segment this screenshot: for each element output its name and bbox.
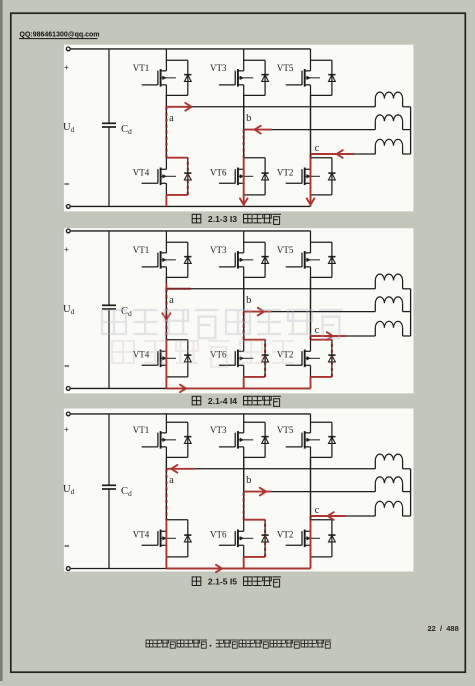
svg-text:VT3: VT3 [210,63,227,73]
diode VD2 (freewheel of VT2) branch wiring [311,520,332,557]
capacitor Cd lower lead [108,309,110,388]
wire: DC- bottom rail [71,387,311,389]
current arrow: out of node c [327,332,333,340]
wire: leg segment below VT4 [165,195,167,207]
wire: DC+ top rail [71,48,311,50]
svg-text:VT3: VT3 [210,245,227,255]
current arrow: leg A down [162,313,170,320]
svg-text:VT6: VT6 [210,530,227,540]
wire: leg segment below VT1 [165,277,167,339]
wire: leg segment below VT3 [243,95,245,157]
svg-text:VT4: VT4 [133,530,150,540]
wire: phase a output [166,106,375,108]
current arrow: out of node a [185,103,191,111]
wire: leg feed above VT2 [310,457,312,519]
diode VD6 symbol [262,173,269,180]
diode VD3 symbol [262,257,269,264]
inductor load phase a [375,92,410,107]
diode VD5 symbol [328,257,335,264]
wire: leg feed above VT6 [243,277,245,339]
capacitor Cd upper lead [108,231,110,305]
diode VD4 (freewheel of VT4) branch wiring [166,158,187,195]
svg-text:c: c [315,505,320,516]
diode VD4 symbol [184,535,191,542]
transistor VT6 [219,350,253,368]
figure 3 white panel [64,409,414,572]
svg-text:c: c [315,325,320,336]
wire: leg feed above VT5 [310,49,312,60]
wire: VT3 drain-side leg inside block [243,242,245,253]
current arrow: leg B down [240,198,248,204]
wire: leg segment below VT2 [310,377,312,389]
watermark row 1 [102,310,343,338]
label - [65,183,70,185]
wire: VT2 drain-side leg inside block [310,339,312,351]
diode VD6 (freewheel of VT6) branch wiring [244,340,265,377]
transistor VT6 [219,168,253,186]
wire: VT6 source-side leg inside block [243,183,245,195]
wire: phase b output [244,491,376,493]
wire: VT5 drain-side leg inside block [310,242,312,253]
caption figure 2.1-5 [192,576,281,587]
svg-text:b: b [246,295,251,306]
capacitor Cd upper lead [108,49,110,123]
transistor VT4 [142,350,176,368]
inductor load phase a [375,454,410,469]
wire: leg segment below VT1 [165,457,167,519]
wire: leg feed above VT1 [165,231,167,242]
capacitor Cd upper lead [108,414,110,485]
wire: leg segment below VT1 [165,95,167,157]
wire: leg feed above VT5 [310,231,312,242]
diode VD2 symbol [328,355,335,362]
svg-text:a: a [169,113,174,124]
svg-text:QQ:986461300@qq.com: QQ:986461300@qq.com [20,31,100,38]
wire: VT5 drain-side leg inside block [310,422,312,433]
wire: phase c output [311,335,376,337]
diode VD6 symbol [262,355,269,362]
wire: VT6 source-side leg inside block [243,365,245,377]
wire: DC+ top rail [71,413,311,415]
wire: VT1 drain-side leg inside block [165,422,167,433]
diode VD4 symbol [184,355,191,362]
capacitor Cd [102,123,116,127]
wire: VT6 drain-side leg inside block [243,339,245,351]
current arrow: out of node b [258,308,264,316]
wire: leg feed above VT1 [165,414,167,422]
node: DC+ terminal [66,229,70,233]
wire: VT3 source-side leg inside block [243,267,245,278]
diode VD1 (freewheel of VT1) branch wiring [166,60,187,95]
diode VD3 (freewheel of VT3) branch wiring [244,242,265,277]
wire: leg feed above VT2 [310,277,312,339]
current arrow: bottom rail right [216,565,222,572]
wire: VT3 source-side leg inside block [243,447,245,458]
current path I5: up through diode VD6 to node b [244,492,272,569]
wire: leg feed above VT4 [165,277,167,339]
svg-text:VT1: VT1 [133,63,150,73]
transistor VT5 [286,69,320,87]
current path I5: bottom rail to leg B [166,568,310,570]
node: DC- terminal [66,205,70,209]
wire: phase a output [166,468,375,470]
current path I5: phase a into leg A [166,469,194,569]
diode VD1 (freewheel of VT1) branch wiring [166,242,187,277]
diode VD6 (freewheel of VT6) branch wiring [244,520,265,557]
scan left edge shading [0,0,3,681]
wire: leg segment below VT5 [310,277,312,339]
svg-text:2.1-5 I5: 2.1-5 I5 [208,576,237,586]
wire: VT4 drain-side leg inside block [165,157,167,169]
diode VD2 symbol [328,173,335,180]
diode VD5 (freewheel of VT5) branch wiring [311,422,332,457]
diode VD3 (freewheel of VT3) branch wiring [244,60,265,95]
wire: leg segment below VT3 [243,457,245,519]
wire: VT4 source-side leg inside block [165,365,167,377]
wire: leg feed above VT4 [165,95,167,157]
node: DC+ terminal [66,47,70,51]
header underline [19,38,98,40]
node: DC- terminal [66,387,70,391]
wire: leg feed above VT1 [165,49,167,60]
svg-text:VT2: VT2 [277,530,294,540]
wire: VT6 drain-side leg inside block [243,157,245,169]
diode VD1 symbol [184,75,191,82]
current path I3: phase b return into leg B [244,130,272,207]
wire: load star bus [410,469,412,516]
figure 1 white panel [64,45,414,212]
svg-text:2.1-3 I3: 2.1-3 I3 [208,214,237,224]
current path I5: phase c into leg C through VT2 [311,516,346,569]
svg-text:b: b [246,475,251,486]
svg-text:c: c [315,143,320,154]
wire: leg feed above VT3 [243,49,245,60]
transistor VT3 [219,69,253,87]
wire: VT1 source-side leg inside block [165,85,167,96]
inductor load phase b [375,477,410,492]
node: DC+ terminal [66,412,70,416]
inductor load phase b [375,297,410,312]
svg-text:VT4: VT4 [133,168,150,178]
wire: phase c output [311,153,376,155]
wire: VT1 source-side leg inside block [165,447,167,458]
capacitor Cd [102,305,116,309]
wire: leg feed above VT6 [243,457,245,519]
current path I4: bottom rail to legs B,C [166,387,310,389]
svg-text:VT6: VT6 [210,168,227,178]
current arrow: leg C down [307,198,315,204]
svg-text:2.1-4 I4: 2.1-4 I4 [208,396,237,406]
svg-text:a: a [169,295,174,306]
transistor VT1 [142,69,176,87]
transistor VT1 [142,431,176,449]
svg-text:+: + [64,425,69,434]
transistor VT3 [219,251,253,269]
wire: VT2 drain-side leg inside block [310,157,312,169]
svg-text:+: + [64,63,69,72]
label - [65,545,70,547]
diode VD4 (freewheel of VT4) branch wiring [166,520,187,557]
svg-text:VT3: VT3 [210,425,227,435]
wire: leg feed above VT6 [243,95,245,157]
capacitor Cd lower lead [108,127,110,206]
wire: phase a output [166,288,375,290]
transistor VT4 [142,168,176,186]
current arrow: into node a [171,465,177,473]
diode VD3 symbol [262,75,269,82]
wire: leg feed above VT2 [310,95,312,157]
svg-text:VT1: VT1 [133,425,150,435]
current arrow: into node b [255,126,261,134]
wire: VT2 source-side leg inside block [310,365,312,377]
svg-text:VT1: VT1 [133,245,150,255]
inductor load phase c [375,501,410,516]
wire: phase b output [244,311,376,313]
wire: DC- bottom rail [71,568,311,570]
diode VD4 (freewheel of VT4) branch wiring [166,340,187,377]
inductor load phase c [375,139,410,154]
svg-text:+: + [64,245,69,254]
transistor VT1 [142,251,176,269]
wire: leg feed above VT3 [243,231,245,242]
svg-text:VT5: VT5 [277,425,294,435]
wire: leg feed above VT4 [165,457,167,519]
wire: VT5 drain-side leg inside block [310,60,312,71]
wire: leg segment below VT4 [165,557,167,569]
wire: load star bus [410,289,412,336]
diode VD1 symbol [184,257,191,264]
diode VD6 (freewheel of VT6) branch wiring [244,158,265,195]
diode VD2 (freewheel of VT2) branch wiring [311,158,332,195]
svg-text:a: a [169,475,174,486]
wire: VT2 source-side leg inside block [310,545,312,557]
svg-text:VT5: VT5 [277,245,294,255]
wire: VT2 drain-side leg inside block [310,519,312,531]
wire: VT4 source-side leg inside block [165,545,167,557]
wire: leg segment below VT2 [310,557,312,569]
wire: VT3 drain-side leg inside block [243,60,245,71]
svg-text:b: b [246,113,251,124]
wire: leg segment below VT5 [310,457,312,519]
caption figure 2.1-3 [192,214,281,225]
current path I3: leg A up through diode VD4 [166,107,189,207]
current path I4: node a down leg A through VT4 [166,283,191,389]
diode VD1 (freewheel of VT1) branch wiring [166,422,187,457]
wire: leg segment below VT6 [243,557,245,569]
wire: load star bus [410,107,412,154]
wire: DC+ top rail [71,230,311,232]
wire: VT4 drain-side leg inside block [165,519,167,531]
capacitor Cd [102,485,116,489]
wire: VT1 drain-side leg inside block [165,242,167,253]
wire: leg segment below VT6 [243,195,245,207]
wire: VT5 source-side leg inside block [310,267,312,278]
watermark row 2 [112,341,294,367]
diode VD3 symbol [262,437,269,444]
diode VD5 symbol [328,437,335,444]
current path I4: up through diode VD6 to node b [244,312,272,389]
wire: leg feed above VT5 [310,414,312,422]
wire: VT3 source-side leg inside block [243,85,245,96]
current arrow: out of node b [260,488,266,496]
svg-text:VT2: VT2 [277,168,294,178]
diode VD5 (freewheel of VT5) branch wiring [311,242,332,277]
wire: leg segment below VT5 [310,95,312,157]
transistor VT5 [286,431,320,449]
diode VD6 symbol [262,535,269,542]
node: DC- terminal [66,567,70,571]
transistor VT2 [286,530,320,548]
inductor load phase a [375,274,410,289]
figure 2 white panel [64,228,414,393]
current arrow: bottom rail right [180,385,186,392]
current path I4: up through diode VD2 to node c [311,336,346,388]
diode VD5 symbol [328,75,335,82]
transistor VT5 [286,251,320,269]
wire: VT1 source-side leg inside block [165,267,167,278]
wire: leg segment below VT6 [243,377,245,389]
svg-text:VT5: VT5 [277,63,294,73]
wire: leg feed above VT3 [243,414,245,422]
wire: VT1 drain-side leg inside block [165,60,167,71]
wire: VT5 source-side leg inside block [310,85,312,96]
diode VD4 symbol [184,173,191,180]
footer sentence (hanzi) [146,640,331,648]
transistor VT2 [286,168,320,186]
wire: VT6 drain-side leg inside block [243,519,245,531]
diode VD5 (freewheel of VT5) branch wiring [311,60,332,95]
wire: VT6 source-side leg inside block [243,545,245,557]
wire: VT3 drain-side leg inside block [243,422,245,433]
wire: VT4 source-side leg inside block [165,183,167,195]
wire: leg segment below VT3 [243,277,245,339]
transistor VT3 [219,431,253,449]
inductor load phase b [375,115,410,130]
transistor VT2 [286,350,320,368]
diode VD3 (freewheel of VT3) branch wiring [244,422,265,457]
capacitor Cd lower lead [108,489,110,569]
inductor load phase c [375,321,410,336]
caption figure 2.1-4 [192,396,281,407]
transistor VT6 [219,530,253,548]
diode VD1 symbol [184,437,191,444]
wire: DC- bottom rail [71,205,311,207]
diode VD2 (freewheel of VT2) branch wiring [311,340,332,377]
wire: VT5 source-side leg inside block [310,447,312,458]
wire: phase b output [244,129,376,131]
current arrow: into node c [337,150,343,158]
wire: leg segment below VT2 [310,195,312,207]
wire: phase c output [311,515,376,517]
wire: VT2 source-side leg inside block [310,183,312,195]
label - [65,365,70,367]
diode VD2 symbol [328,535,335,542]
wire: VT4 drain-side leg inside block [165,339,167,351]
svg-text:22 / 488: 22 / 488 [428,624,459,633]
current path I3: phase c return into leg C [311,154,355,206]
current arrow: into node c [328,512,334,520]
transistor VT4 [142,530,176,548]
wire: leg segment below VT4 [165,377,167,389]
